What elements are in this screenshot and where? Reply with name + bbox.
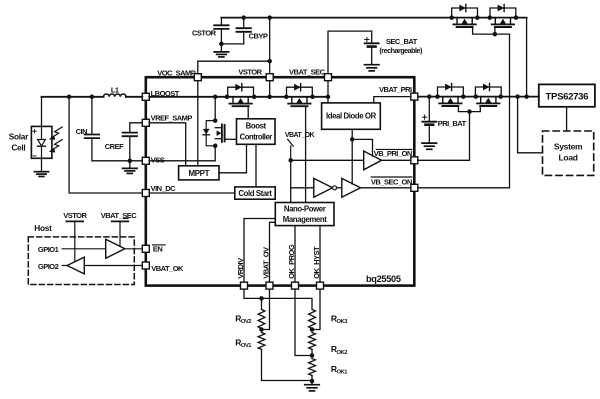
IC U1 bq25505 outline xyxy=(146,77,415,285)
wire VIN_DC branch xyxy=(69,97,142,193)
pin VBAT_PRI xyxy=(379,85,418,100)
block Cold Start xyxy=(235,187,275,199)
switch VBAT_OK internal xyxy=(285,132,315,160)
wire Q5 gate to boost controller xyxy=(247,107,249,119)
node CSTOR top junction xyxy=(241,15,272,20)
svg-text:CIN: CIN xyxy=(76,127,88,136)
buffer VBAT_OK to GPIO2 xyxy=(38,257,142,274)
wire VRDIV external xyxy=(244,289,312,309)
wire ideal diode supply xyxy=(350,129,373,184)
svg-text:Boost: Boost xyxy=(246,122,267,131)
wire OK_HYST internal xyxy=(319,226,321,283)
pin VBAT_OK xyxy=(142,262,184,273)
solar cell PV1 xyxy=(9,97,62,159)
ground divider xyxy=(305,381,320,391)
node top FET contacts xyxy=(449,15,518,20)
transistor Q3 PRI pass FET xyxy=(438,83,464,106)
pin VREF_SAMP xyxy=(142,113,192,126)
svg-text:Solar: Solar xyxy=(9,131,29,141)
transistor Q4 PRI pass FET xyxy=(475,83,501,106)
pin VSTOR xyxy=(238,67,273,80)
wire VBAT_OV internal xyxy=(270,222,276,282)
svg-text:(rechargeable): (rechargeable) xyxy=(379,46,423,55)
transistor Q2 SEC pass FET xyxy=(490,4,516,27)
wire VBAT_SEC to SEC_BAT xyxy=(328,31,372,74)
svg-text:Host: Host xyxy=(34,223,52,233)
capacitor CIN xyxy=(76,97,143,161)
svg-text:VBAT_SEC: VBAT_SEC xyxy=(289,67,326,76)
wire VB_PRI buffer input xyxy=(291,159,364,161)
wire boost to cold start xyxy=(255,144,257,187)
wire VBAT_PRI rail xyxy=(418,96,539,98)
wire top pair output down xyxy=(516,18,527,97)
ground SEC_BAT xyxy=(364,65,379,71)
wire VREF_SAMP internal xyxy=(149,123,185,166)
wire VRDIV internal xyxy=(244,219,275,283)
svg-text:Management: Management xyxy=(283,215,327,224)
svg-text:L1: L1 xyxy=(111,86,119,95)
node ROK2 junction xyxy=(310,353,315,358)
pin LBOOST xyxy=(142,89,179,100)
svg-text:bq25505: bq25505 xyxy=(366,274,401,284)
svg-text:VOC_SAMP: VOC_SAMP xyxy=(157,68,196,77)
svg-text:CREF: CREF xyxy=(105,142,124,151)
wire VSTOR internal xyxy=(269,81,271,97)
svg-text:Controller: Controller xyxy=(240,132,273,141)
block Boost Controller xyxy=(237,119,276,145)
wire VBAT_SEC internal xyxy=(327,81,329,103)
svg-text:VBAT_SEC: VBAT_SEC xyxy=(101,211,138,220)
label VSTOR host xyxy=(63,211,87,261)
resistor ROV1 xyxy=(235,333,312,381)
svg-text:VBAT_OK: VBAT_OK xyxy=(151,264,184,273)
wire VOC_SAMP internal xyxy=(197,81,199,166)
pin EN xyxy=(142,245,165,254)
ground solar xyxy=(35,158,49,176)
svg-text:System: System xyxy=(554,141,583,151)
wire VSTOR top rail xyxy=(221,17,526,19)
ground CREF xyxy=(123,161,138,174)
ground PRI_BAT xyxy=(422,143,437,149)
wire MPPT to boost controller xyxy=(219,144,247,173)
pin VB_PRI_ON xyxy=(374,149,418,164)
wire VOC_SAMP to VSTOR xyxy=(198,18,272,74)
capacitor CSTOR xyxy=(192,18,229,44)
wire nano-power to buffers xyxy=(290,160,292,202)
transistor Q6 SEC charge FET xyxy=(287,84,313,107)
pin VOC_SAMP xyxy=(157,68,201,80)
node PRI FET contacts xyxy=(435,94,503,99)
svg-text:VIN_DC: VIN_DC xyxy=(151,184,177,193)
wire VSS internal to sample FET xyxy=(149,146,215,161)
wire VB_PRI_ON control xyxy=(418,112,470,161)
pin VIN_DC xyxy=(142,184,176,197)
pin VBAT_SEC xyxy=(289,67,331,80)
block Host dashed box xyxy=(28,223,134,285)
label VBAT_SEC host xyxy=(101,211,138,246)
svg-text:VB_PRI_ON: VB_PRI_ON xyxy=(374,149,412,158)
wire input rail xyxy=(42,96,143,98)
pin OK_PROG xyxy=(287,244,299,289)
node divider ground junction xyxy=(310,379,315,384)
wire VB_SEC_ON control xyxy=(418,34,510,188)
svg-text:Cell: Cell xyxy=(11,143,25,153)
svg-text:VSS: VSS xyxy=(151,156,165,165)
wire OK_PROG internal xyxy=(294,226,296,283)
resistor ROV2 xyxy=(235,298,265,329)
resistor ROK2 xyxy=(309,333,348,356)
wire VIN_DC internal xyxy=(149,192,235,194)
pin VB_SEC_ON xyxy=(371,177,418,191)
wire PRI pair gate bus xyxy=(458,106,480,114)
pin VSS xyxy=(142,156,165,165)
svg-text:Load: Load xyxy=(559,153,578,163)
wire inverter input xyxy=(291,187,314,189)
pin VRDIV xyxy=(236,258,248,289)
wire VBAT_OV external xyxy=(262,289,270,329)
svg-text:VBAT_PRI: VBAT_PRI xyxy=(379,85,412,94)
transistor Q7 sample FET xyxy=(203,97,237,148)
svg-text:VBAT_OK: VBAT_OK xyxy=(285,132,315,139)
svg-text:Nano-Power: Nano-Power xyxy=(284,205,326,214)
svg-text:VB_SEC_ON: VB_SEC_ON xyxy=(371,178,412,187)
node ROV junction xyxy=(259,327,264,332)
svg-text:CBYP: CBYP xyxy=(249,31,268,40)
battery SEC_BAT xyxy=(365,31,423,64)
block MPPT xyxy=(179,166,219,180)
wire Q6 gate to nano-power xyxy=(305,107,307,203)
svg-text:VSTOR: VSTOR xyxy=(63,211,87,220)
wire SEC pair gate bus xyxy=(473,27,510,36)
svg-text:PRI_BAT: PRI_BAT xyxy=(438,119,467,128)
transistor Q5 boost rectifier FET xyxy=(228,84,254,107)
wire system load feed xyxy=(518,97,543,153)
svg-text:Ideal Diode OR: Ideal Diode OR xyxy=(326,112,377,121)
svg-text:EN: EN xyxy=(153,245,163,254)
svg-text:GPIO1: GPIO1 xyxy=(38,245,59,254)
pin OK_HYST xyxy=(312,246,324,289)
regulator U2 TPS62736 xyxy=(539,84,595,106)
node load junctions xyxy=(515,94,529,99)
block Nano-Power Management xyxy=(275,203,334,226)
svg-text:Cold Start: Cold Start xyxy=(238,189,272,198)
svg-text:GPIO2: GPIO2 xyxy=(38,262,59,271)
wire OK_HYST external xyxy=(312,289,320,329)
inductor L1 xyxy=(104,86,126,97)
svg-text:VREF_SAMP: VREF_SAMP xyxy=(151,113,193,122)
node ROK3 junction xyxy=(310,327,315,332)
svg-text:MPPT: MPPT xyxy=(188,169,209,178)
pin VBAT_OV xyxy=(261,247,273,289)
wire LBOOST internal rail xyxy=(149,96,328,98)
buffer GPIO1 to EN xyxy=(38,239,142,258)
wire VBAT_PRI internal xyxy=(374,97,411,103)
battery PRI_BAT xyxy=(422,94,466,142)
transistor Q1 SEC pass FET xyxy=(452,4,478,27)
inverter U3 xyxy=(314,178,342,197)
block Ideal Diode OR xyxy=(322,103,381,129)
capacitor CBYP xyxy=(237,18,268,44)
wire cap commons xyxy=(219,42,244,47)
svg-text:VSTOR: VSTOR xyxy=(238,67,262,76)
resistor ROK3 xyxy=(309,309,349,329)
node input junctions xyxy=(67,95,94,100)
node LBOOST rail junctions xyxy=(213,95,330,100)
ground caps xyxy=(214,44,229,57)
buffer U5 VB_PRI driver xyxy=(364,151,411,170)
block System Load xyxy=(543,131,594,175)
wire OK_PROG external xyxy=(295,289,312,355)
svg-text:TPS62736: TPS62736 xyxy=(546,91,589,102)
capacitor CREF xyxy=(105,123,143,163)
resistor ROK1 xyxy=(309,359,349,382)
node buffer input junction xyxy=(288,158,293,163)
buffer U4 VB_SEC driver xyxy=(342,178,411,197)
svg-text:CSTOR: CSTOR xyxy=(192,28,217,37)
wire TPS to load xyxy=(566,107,568,131)
